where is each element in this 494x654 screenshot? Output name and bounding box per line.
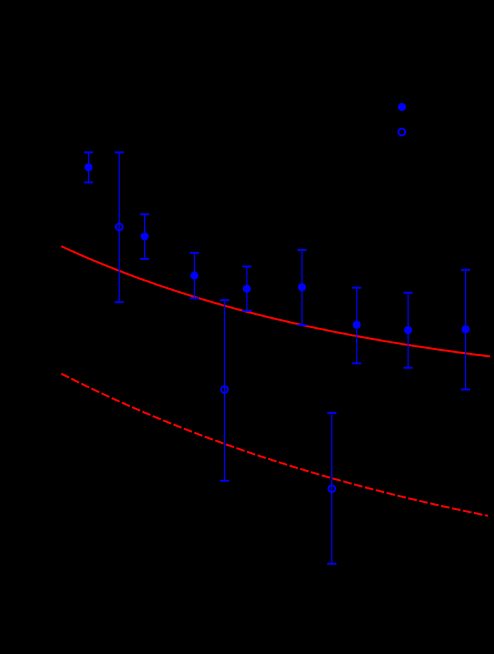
error bar P2 [140, 214, 149, 259]
error bar P3 [190, 253, 199, 298]
data point P6 (filled circle) [353, 321, 361, 329]
error bar P8 [461, 270, 470, 390]
error bar O3 [327, 413, 336, 564]
error bar O1 [115, 152, 124, 302]
error bar P6 [352, 288, 361, 364]
error bar P5 [297, 250, 306, 325]
data point P7 (filled circle) [404, 326, 412, 334]
data point O3 (open circle) [328, 485, 335, 492]
data point P3 (filled circle) [190, 272, 198, 280]
error bar P4 [242, 267, 251, 311]
data point P1 (filled circle) [85, 163, 93, 171]
legend marker: filled circle [398, 103, 406, 111]
solid red fit curve [61, 246, 490, 356]
error bar P1 [84, 152, 93, 182]
data point O1 (open circle) [116, 224, 123, 231]
data point P8 (filled circle) [462, 325, 470, 333]
legend marker: open circle [398, 129, 405, 136]
data point O2 (open circle) [221, 386, 228, 393]
data point P2 (filled circle) [141, 232, 149, 240]
data point P4 (filled circle) [243, 285, 251, 293]
error bar P7 [404, 293, 413, 368]
dashed red curve [61, 374, 488, 516]
data point P5 (filled circle) [298, 283, 306, 291]
error bar O2 [220, 300, 229, 481]
